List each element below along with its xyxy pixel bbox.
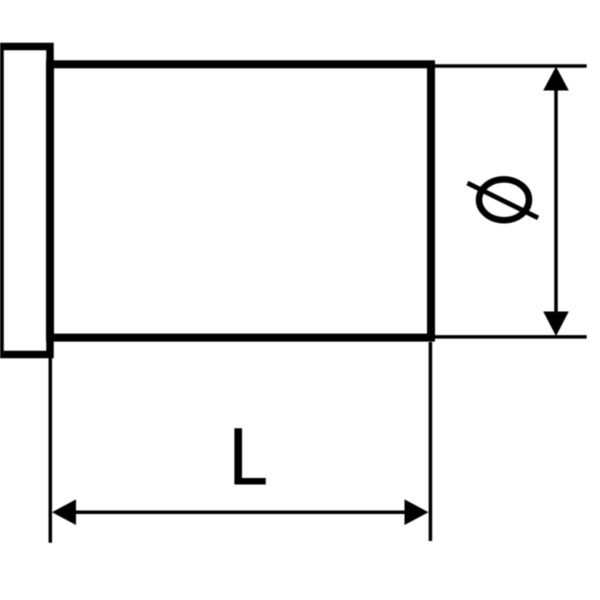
- body (main cylinder rectangle): [50, 64, 431, 337]
- wire right extension line: [429, 342, 433, 541]
- wire diameter dimension line: [554, 87, 558, 315]
- flange (left collar rectangle): [0, 47, 50, 355]
- arrowhead up (diameter top): [543, 67, 569, 91]
- wire length dimension line: [74, 510, 406, 514]
- wire left extension line: [49, 358, 53, 543]
- label diameter symbol: [467, 179, 538, 220]
- arrowhead down (diameter bottom): [543, 312, 569, 337]
- arrowhead right (length right): [405, 499, 429, 525]
- arrowhead left (length left): [52, 499, 76, 525]
- wire top extension line: [435, 64, 587, 68]
- wire bottom extension line: [435, 335, 587, 339]
- label L: [234, 428, 265, 484]
